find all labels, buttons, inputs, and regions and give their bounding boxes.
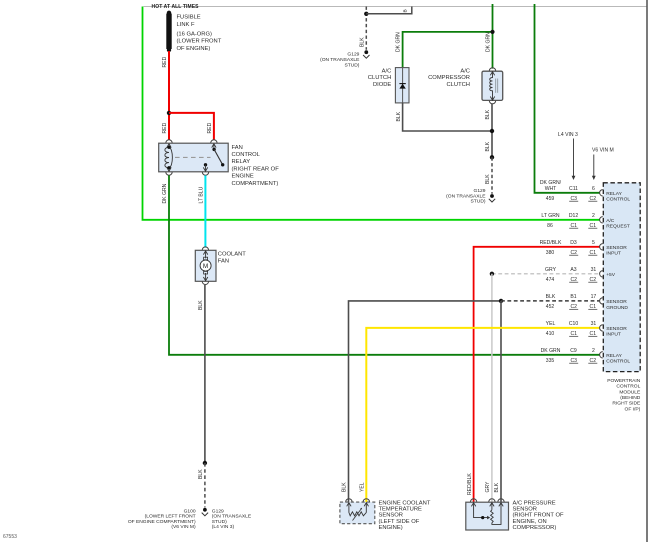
wire to pin B xyxy=(366,7,412,14)
svg-text:RED/BLK: RED/BLK xyxy=(467,473,473,495)
svg-text:86: 86 xyxy=(547,223,553,229)
svg-text:BLK: BLK xyxy=(342,482,348,492)
svg-text:G129: G129 xyxy=(347,51,359,57)
svg-text:A/C PRESSURE: A/C PRESSURE xyxy=(513,501,556,507)
node junction GRY xyxy=(490,272,494,276)
relay pin arc bottom left xyxy=(166,172,172,175)
svg-text:HOT AT ALL TIMES: HOT AT ALL TIMES xyxy=(152,4,200,10)
svg-text:POWERTRAIN: POWERTRAIN xyxy=(607,378,641,384)
wire RED branch to switch xyxy=(169,113,214,140)
svg-text:2: 2 xyxy=(592,348,595,354)
svg-text:REQUEST: REQUEST xyxy=(606,224,630,230)
svg-text:DIODE: DIODE xyxy=(373,82,391,88)
svg-text:L4 VIN 3: L4 VIN 3 xyxy=(558,132,578,138)
svg-text:410: 410 xyxy=(546,331,555,337)
relay pin arrow top left xyxy=(167,144,171,148)
svg-text:C10: C10 xyxy=(569,321,579,327)
svg-text:(RIGHT REAR OF: (RIGHT REAR OF xyxy=(232,166,280,172)
svg-text:STUD): STUD) xyxy=(344,62,359,68)
fusible link F xyxy=(167,11,171,15)
pin B1 sensor ground xyxy=(546,294,629,311)
A/C compressor clutch box xyxy=(482,71,503,100)
clutch core bars xyxy=(495,79,497,93)
wire BLK dashed from top xyxy=(365,7,367,50)
svg-text:A/C: A/C xyxy=(606,218,615,224)
ECT sensor box xyxy=(340,502,375,524)
svg-text:MODULE: MODULE xyxy=(619,389,641,395)
svg-text:ENGINE, ON: ENGINE, ON xyxy=(513,519,547,525)
svg-text:BLK: BLK xyxy=(360,37,366,47)
ground G129 mid xyxy=(490,194,494,198)
relay pin arrow bottom left xyxy=(167,167,171,171)
svg-text:474: 474 xyxy=(546,277,555,283)
ground G129 top xyxy=(364,50,368,54)
pin D12 a/c request xyxy=(541,213,629,230)
svg-text:SENSOR: SENSOR xyxy=(379,513,403,519)
motor M xyxy=(204,257,208,260)
wire BLK sensor ground xyxy=(349,301,502,502)
svg-text:(RIGHT FRONT OF: (RIGHT FRONT OF xyxy=(513,513,564,519)
label G129 xyxy=(212,508,252,530)
svg-text:G100: G100 xyxy=(184,508,196,514)
pin C9 relay control xyxy=(541,348,631,365)
svg-text:DK GRN: DK GRN xyxy=(162,183,168,203)
svg-text:17: 17 xyxy=(591,294,597,300)
svg-text:COMPRESSOR: COMPRESSOR xyxy=(428,75,470,81)
wire BLK below diode xyxy=(403,103,492,131)
svg-text:FUSIBLE: FUSIBLE xyxy=(177,14,201,20)
svg-text:31: 31 xyxy=(591,321,597,327)
svg-text:G129: G129 xyxy=(474,188,486,194)
svg-text:(LEFT SIDE OF: (LEFT SIDE OF xyxy=(379,519,420,525)
svg-text:RED: RED xyxy=(207,122,213,133)
svg-text:(ON TRANSAXLE: (ON TRANSAXLE xyxy=(320,57,360,63)
clutch pin arc bottom xyxy=(489,101,495,104)
wire DK GRN to compressor clutch xyxy=(492,4,494,69)
node splice xyxy=(490,155,494,159)
wire DK GRN diode branch xyxy=(403,32,493,68)
wire RED/BLK sensor input xyxy=(474,247,600,502)
wire BLK dashed to pin xyxy=(501,300,600,302)
wire BLK vertical to sensor xyxy=(500,301,502,502)
svg-text:RED: RED xyxy=(162,122,168,133)
svg-text:335: 335 xyxy=(546,358,555,364)
svg-text:BLK: BLK xyxy=(485,109,491,119)
ECT pin arc YEL xyxy=(363,499,369,502)
svg-text:(16 GA-ORG): (16 GA-ORG) xyxy=(177,32,212,38)
svg-text:TEMPERATURE: TEMPERATURE xyxy=(379,507,423,513)
svg-text:M: M xyxy=(203,263,208,270)
label G129 mid xyxy=(446,188,486,204)
pin A3 +5V xyxy=(545,267,616,283)
svg-text:RED: RED xyxy=(162,56,168,67)
wire BLK dashed to ground xyxy=(204,463,206,508)
svg-text:RELAY: RELAY xyxy=(232,159,251,165)
wire GRY vertical xyxy=(491,274,493,502)
fan control relay box xyxy=(159,143,229,172)
fan pin arrow top xyxy=(203,251,207,255)
svg-text:INPUT: INPUT xyxy=(606,251,621,257)
svg-text:CLUTCH: CLUTCH xyxy=(368,75,392,81)
svg-text:(LOWER LEFT FRONT: (LOWER LEFT FRONT xyxy=(145,514,196,520)
svg-text:SENSOR: SENSOR xyxy=(606,245,627,251)
svg-text:ENGINE): ENGINE) xyxy=(379,525,403,531)
relay coil xyxy=(165,147,173,168)
wire GRY dashed xyxy=(492,273,600,275)
relay pin arc top left xyxy=(166,140,172,143)
svg-text:D3: D3 xyxy=(570,240,577,246)
svg-text:FAN: FAN xyxy=(232,145,243,151)
svg-text:CONTROL: CONTROL xyxy=(606,197,630,203)
svg-text:BLK: BLK xyxy=(546,294,556,300)
svg-text:GRY: GRY xyxy=(485,481,491,493)
svg-text:BLK: BLK xyxy=(494,482,500,492)
wire BLK dashed to ground xyxy=(491,157,493,194)
svg-text:BLK: BLK xyxy=(485,174,491,184)
svg-text:B: B xyxy=(403,9,409,12)
svg-text:SENSOR: SENSOR xyxy=(606,326,627,332)
node junction BLK top xyxy=(364,12,368,16)
svg-text:380: 380 xyxy=(546,250,555,256)
svg-text:2: 2 xyxy=(592,213,595,219)
node junction BLK xyxy=(203,461,207,465)
label A/C clutch diode xyxy=(368,68,392,88)
node junction RED xyxy=(167,111,171,115)
pressure transducer internals xyxy=(474,513,488,518)
svg-text:GRY: GRY xyxy=(545,267,557,273)
svg-text:STUD): STUD) xyxy=(212,519,227,525)
diode symbol xyxy=(402,68,404,103)
svg-text:YEL: YEL xyxy=(360,482,366,492)
clutch pin arrow top xyxy=(490,72,494,76)
fan pin arrow bottom xyxy=(205,273,207,281)
label A/C compressor clutch xyxy=(428,68,470,88)
svg-text:A/C: A/C xyxy=(460,68,470,74)
svg-text:GROUND: GROUND xyxy=(606,305,628,311)
svg-text:DK GRN: DK GRN xyxy=(485,32,491,52)
wire RED from fusible link xyxy=(168,51,170,140)
node junction BLK xyxy=(499,299,503,303)
svg-text:BLK: BLK xyxy=(485,141,491,151)
svg-text:BLK: BLK xyxy=(198,300,204,310)
node junction on DK GRN xyxy=(490,30,494,34)
svg-text:RELAY: RELAY xyxy=(606,191,622,197)
node junction BLK diode xyxy=(490,129,494,133)
label PCM xyxy=(607,378,641,412)
svg-text:SENSOR: SENSOR xyxy=(606,299,627,305)
svg-text:STUD): STUD) xyxy=(471,199,486,205)
svg-text:C11: C11 xyxy=(569,186,578,192)
svg-text:COOLANT: COOLANT xyxy=(218,252,246,258)
svg-text:(BEHIND: (BEHIND xyxy=(620,395,641,401)
top cut-off box bottom edge xyxy=(144,6,648,8)
svg-text:A/C: A/C xyxy=(382,68,392,74)
svg-text:452: 452 xyxy=(546,304,555,310)
relay switch xyxy=(213,144,215,150)
fan pin arc bottom xyxy=(202,281,208,284)
wire BLK below clutch xyxy=(491,104,493,158)
pin C10 sensor input xyxy=(546,321,628,338)
svg-text:V6 VIN M: V6 VIN M xyxy=(592,148,614,154)
wire LT BLU relay to fan xyxy=(204,175,206,247)
pin D3 sensor input xyxy=(540,240,628,257)
svg-text:ENGINE COOLANT: ENGINE COOLANT xyxy=(379,501,431,507)
svg-text:CONTROL: CONTROL xyxy=(232,152,261,158)
wire DK GRN relay to PCM C9 xyxy=(169,175,600,354)
label ECT sensor xyxy=(379,501,431,531)
label A/C pressure sensor xyxy=(513,501,564,531)
relay dashed link xyxy=(175,156,211,158)
relay pin arc bottom mid xyxy=(202,172,208,175)
wire DK GRN/WHT (relay control) xyxy=(535,4,600,193)
svg-text:OF ENGINE): OF ENGINE) xyxy=(177,46,211,52)
svg-text:+5V: +5V xyxy=(606,272,616,278)
svg-text:OF I/P): OF I/P) xyxy=(625,406,641,412)
svg-text:459: 459 xyxy=(546,196,555,202)
right border line xyxy=(646,0,648,542)
svg-text:RELAY: RELAY xyxy=(606,353,622,359)
clutch pin arrow bottom xyxy=(492,94,494,100)
svg-text:CONTROL: CONTROL xyxy=(616,384,640,390)
svg-text:CLUTCH: CLUTCH xyxy=(446,82,470,88)
svg-text:D12: D12 xyxy=(569,213,579,219)
svg-text:LT GRN: LT GRN xyxy=(541,213,560,219)
svg-text:RIGHT SIDE: RIGHT SIDE xyxy=(612,401,641,407)
svg-text:(LOWER FRONT: (LOWER FRONT xyxy=(177,39,222,45)
label G129 top xyxy=(320,51,360,68)
ECT arrows xyxy=(347,503,351,507)
svg-text:FAN: FAN xyxy=(218,258,229,264)
svg-text:(ON TRANSAXLE: (ON TRANSAXLE xyxy=(212,514,252,520)
svg-text:6: 6 xyxy=(592,186,595,192)
svg-text:CONTROL: CONTROL xyxy=(606,359,630,365)
fan pin arc top xyxy=(202,247,208,250)
svg-text:COMPARTMENT): COMPARTMENT) xyxy=(232,181,279,187)
svg-text:C9: C9 xyxy=(570,348,577,354)
svg-text:(V6 VIN M): (V6 VIN M) xyxy=(171,524,196,530)
clutch coil xyxy=(490,72,493,95)
svg-text:ENGINE: ENGINE xyxy=(232,174,254,180)
svg-text:OF ENGINE COMPARTMENT): OF ENGINE COMPARTMENT) xyxy=(128,519,196,525)
wire LT GRN (A/C request) xyxy=(143,7,600,220)
svg-text:DK GRN: DK GRN xyxy=(395,32,401,52)
svg-text:(L4 VIN 3): (L4 VIN 3) xyxy=(212,524,235,530)
svg-text:INPUT: INPUT xyxy=(606,332,621,338)
svg-text:BLK: BLK xyxy=(396,111,402,121)
svg-text:RED/BLK: RED/BLK xyxy=(540,240,562,246)
svg-text:LINK F: LINK F xyxy=(177,22,195,28)
clutch pin arc top xyxy=(489,68,495,71)
A/C pressure sensor box xyxy=(466,502,509,530)
ECT pin arc BLK xyxy=(346,499,352,502)
pressure arrows xyxy=(471,503,475,507)
pressure pin arcs xyxy=(470,499,476,502)
svg-text:A3: A3 xyxy=(570,267,576,273)
svg-text:YEL: YEL xyxy=(546,321,556,327)
svg-text:G129: G129 xyxy=(212,508,224,514)
A/C clutch diode box xyxy=(395,68,409,103)
svg-text:LT BLU: LT BLU xyxy=(199,186,205,203)
svg-text:BLK: BLK xyxy=(198,469,204,479)
svg-text:WHT: WHT xyxy=(545,186,557,192)
wire YEL sensor input xyxy=(366,328,600,502)
svg-text:(ON TRANSAXLE: (ON TRANSAXLE xyxy=(446,193,486,199)
label G100 xyxy=(128,508,196,530)
svg-text:B1: B1 xyxy=(570,294,576,300)
PCM box xyxy=(603,183,640,372)
pin C11 relay control xyxy=(540,180,631,203)
relay pin arc top right xyxy=(211,140,217,143)
ground G100/G129 xyxy=(203,508,207,512)
ECT thermistor xyxy=(349,512,366,516)
svg-text:67553: 67553 xyxy=(3,534,17,540)
coolant fan motor box xyxy=(195,250,216,281)
svg-text:SENSOR: SENSOR xyxy=(513,507,537,513)
svg-text:COMPRESSOR): COMPRESSOR) xyxy=(513,525,557,531)
svg-text:31: 31 xyxy=(591,267,597,273)
svg-text:DK GRN: DK GRN xyxy=(541,348,561,354)
svg-text:5: 5 xyxy=(592,240,595,246)
wire BLK below fan xyxy=(204,285,206,463)
